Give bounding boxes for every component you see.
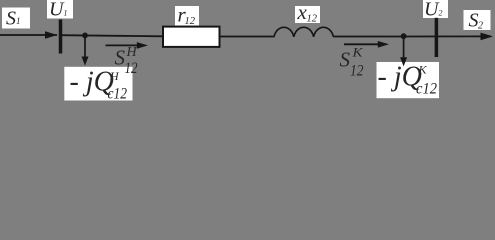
svg-text:12: 12 <box>125 60 138 77</box>
svg-text:S: S <box>340 48 351 72</box>
label box U1 <box>47 0 73 19</box>
svg-text:12: 12 <box>350 63 364 80</box>
svg-text:c12: c12 <box>416 81 437 98</box>
label box r12 <box>175 6 199 26</box>
bus U2 <box>435 18 439 57</box>
wire: bus U1 to resistor <box>61 35 164 36</box>
svg-text:K: K <box>351 45 364 60</box>
svg-text:K: K <box>418 63 428 77</box>
shunt branch down arrow (charging power, right) <box>403 36 405 58</box>
bus U1 <box>59 20 63 54</box>
label box U2 <box>423 0 448 18</box>
label box x12 <box>295 6 320 23</box>
resistor r12 <box>163 27 220 47</box>
inductor x12 (3 humps) <box>274 27 333 37</box>
svg-text:c12: c12 <box>108 86 128 103</box>
label box -jQc12^K <box>377 62 440 98</box>
wire: inductor to bus U2 and output <box>333 35 491 37</box>
wire: left feed segment <box>0 34 57 36</box>
svg-text:2: 2 <box>478 21 483 32</box>
svg-text:12: 12 <box>307 14 318 25</box>
label box -jQc12^H <box>64 67 132 101</box>
svg-text:H: H <box>109 69 120 83</box>
svg-text:S: S <box>469 9 479 31</box>
svg-text:1: 1 <box>16 16 21 26</box>
output arrowhead S2 <box>481 33 494 41</box>
label box S1 <box>2 8 30 29</box>
svg-text:S: S <box>6 8 16 30</box>
shunt branch down arrow (charging power, left) <box>84 35 86 58</box>
arrowhead into bus U1 <box>45 31 58 39</box>
power flow arrow S12H <box>106 44 139 46</box>
node junction dot (left shunt tap) <box>82 33 88 39</box>
label box S2 <box>464 10 491 30</box>
svg-text:H: H <box>126 45 138 60</box>
wire: resistor to inductor <box>220 36 275 38</box>
node junction dot (right shunt tap) <box>401 33 407 39</box>
power flow arrow S12K <box>344 43 380 45</box>
svg-text:12: 12 <box>185 16 196 27</box>
